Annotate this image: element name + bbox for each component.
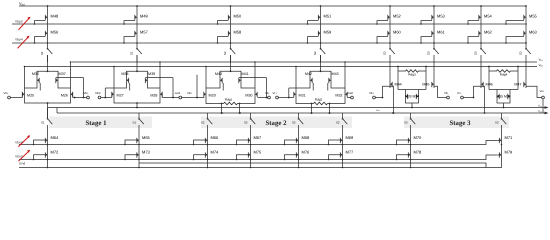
transistor M30 xyxy=(255,90,257,98)
switch S2 (stage strip) xyxy=(244,118,255,125)
wire - Vin- lead xyxy=(11,97,23,99)
wire - pair2 input lead xyxy=(101,97,112,99)
wire - gate lead of M56 to Vbp4 rail xyxy=(35,37,46,43)
transistor M78 xyxy=(408,150,422,159)
wire - column to ground xyxy=(410,159,412,168)
wire - load drains / cross connections xyxy=(206,83,255,91)
svg-text:Rdg3: Rdg3 xyxy=(408,72,416,76)
wire - column between M54 and M62 xyxy=(480,21,482,29)
svg-text:S2: S2 xyxy=(244,121,248,125)
wire - column between M53 and M61 xyxy=(433,21,435,29)
svg-text:M55: M55 xyxy=(529,13,538,18)
svg-text:M63: M63 xyxy=(529,29,538,34)
wire - gate lead of M49 to Vbp0 rail xyxy=(124,21,135,24)
wire - switch lower terminal xyxy=(525,55,527,62)
wire - column to ground xyxy=(138,159,140,168)
wire - column between M66 and M74 xyxy=(207,144,209,151)
transistor M58 xyxy=(228,29,242,37)
wire - source leads of M29/M30 xyxy=(206,98,222,104)
node Vi3 input port xyxy=(276,96,279,99)
resistor Rdg2 xyxy=(312,102,329,105)
wire - gate lead of M48 to Vbp0 rail xyxy=(35,21,46,24)
wire - column between M51 and M59 xyxy=(320,21,322,29)
wire - column between M52 and M60 xyxy=(389,21,391,29)
svg-text:Vbp0: Vbp0 xyxy=(15,20,23,24)
svg-text:M29: M29 xyxy=(209,93,216,97)
stage 2 region bar xyxy=(201,117,352,129)
transistor M56 xyxy=(45,29,59,37)
stage 3 region bar xyxy=(404,117,509,129)
wire - switch lower terminal xyxy=(136,55,138,62)
wire - M47 source to output port xyxy=(526,86,542,97)
transistor M50 xyxy=(228,13,242,21)
wire - gate lead of M58 to Vbp4 rail xyxy=(218,37,229,43)
svg-text:Vbp4: Vbp4 xyxy=(15,38,23,42)
wire - drop into switch S2 xyxy=(342,113,344,118)
transistor M33 xyxy=(406,92,408,100)
wire - column into M45 xyxy=(433,62,435,80)
wire - gate lead of M63 to Vbp4 rail xyxy=(506,37,524,43)
wire - drop into switch S1 xyxy=(138,113,140,118)
wire - source bracket of M42/M43 xyxy=(310,71,331,76)
wire - switch to tail current source xyxy=(138,125,140,136)
svg-text:M65: M65 xyxy=(142,135,151,140)
wire - tail into pair M40/M41 xyxy=(230,55,232,71)
wire - drop into switch S2 xyxy=(298,113,300,118)
svg-text:M67: M67 xyxy=(254,135,263,140)
wire - gate lead of M69 from Vbn4 rail xyxy=(329,140,341,145)
wire - column between M64 and M72 xyxy=(47,144,49,151)
switch S3 (stage strip) xyxy=(404,118,415,125)
transistor M73 xyxy=(137,150,151,159)
wire - source bracket of M36/M37 xyxy=(37,71,58,76)
transistor M49 xyxy=(135,13,149,21)
wire - drain risers of M29/M30 to buses xyxy=(205,67,207,91)
svg-text:Vdd: Vdd xyxy=(19,2,25,7)
transistor M63 xyxy=(524,29,538,37)
svg-text:S3: S3 xyxy=(404,121,408,125)
wire - column between M68 and M76 xyxy=(298,144,300,151)
svg-text:M61: M61 xyxy=(437,29,446,34)
svg-text:S1: S1 xyxy=(40,51,44,55)
transistor M67 xyxy=(248,135,262,144)
svg-text:M31: M31 xyxy=(299,93,306,97)
svg-text:Gnd: Gnd xyxy=(19,162,25,166)
wire - switch to tail current source xyxy=(501,125,503,136)
transistor M62 xyxy=(479,29,493,37)
transistor M72 xyxy=(45,150,59,159)
svg-text:M75: M75 xyxy=(254,150,263,155)
svg-text:S1: S1 xyxy=(130,51,134,55)
svg-text:M68: M68 xyxy=(302,135,311,140)
svg-text:M42: M42 xyxy=(305,72,312,76)
wire - switch lower terminal xyxy=(389,55,391,62)
wire - switch lower terminal xyxy=(230,55,232,62)
wire - column below M62 xyxy=(480,37,482,48)
svg-text:out1: out1 xyxy=(175,91,181,95)
svg-text:M69: M69 xyxy=(346,135,355,140)
svg-text:Rdg2: Rdg2 xyxy=(315,97,323,101)
svg-text:Rdg4: Rdg4 xyxy=(500,72,508,76)
svg-text:S3: S3 xyxy=(495,121,499,125)
wire - M45 source to output port xyxy=(434,86,447,97)
svg-text:Vr+: Vr+ xyxy=(457,91,462,95)
svg-text:S2: S2 xyxy=(223,51,227,55)
switch S1 (stage strip) xyxy=(41,118,52,125)
node Vo2 output port xyxy=(268,96,271,99)
wire - output down to switch bus xyxy=(542,99,544,113)
wire - source bracket of M38/M39 xyxy=(127,71,148,76)
wire - vertical feed into pair3 input xyxy=(196,75,198,98)
transistor M26 xyxy=(71,90,73,98)
transistor M53 xyxy=(432,13,446,21)
svg-text:S2: S2 xyxy=(292,121,296,125)
wire - gate lead of M51 to Vbp0 rail xyxy=(308,21,319,24)
svg-text:M36: M36 xyxy=(32,72,39,76)
switch S2 (top row) xyxy=(223,48,235,55)
svg-text:M38: M38 xyxy=(121,72,128,76)
switch S3 (stage strip) xyxy=(495,118,506,125)
wire - gate stub of M79 xyxy=(497,154,499,156)
wire - column to ground xyxy=(298,159,300,168)
wire - pair1 output lead xyxy=(73,97,87,99)
svg-text:M33 M34: M33 M34 xyxy=(405,94,419,98)
svg-text:M70: M70 xyxy=(414,135,423,140)
switch S3 (top row) xyxy=(519,48,531,55)
transistor M68 xyxy=(296,135,310,144)
switch S3 (top row) xyxy=(427,48,439,55)
wire - column below M56 xyxy=(47,37,49,48)
wire - switch lower terminal xyxy=(47,55,49,62)
wire - gate lead of M65 from Vbn4 rail xyxy=(125,140,137,145)
svg-text:M71: M71 xyxy=(505,135,514,140)
wire - column from Vdd to M53 xyxy=(433,6,435,13)
svg-text:M26: M26 xyxy=(61,93,68,97)
switch S1 (top row) xyxy=(40,48,52,55)
wire - column between M50 and M58 xyxy=(230,21,232,29)
wire - column below M61 xyxy=(433,37,435,48)
wire - load drains / cross connections xyxy=(114,83,160,91)
wire - gate lead of M60 to Vbp4 rail xyxy=(377,37,388,43)
wire - column between M49 and M57 xyxy=(136,21,138,29)
svg-text:M51: M51 xyxy=(324,13,333,18)
wire - gate lead of M68 from Vbn4 rail xyxy=(285,140,297,145)
transistor M32 xyxy=(345,90,347,98)
resistor Rdg3 xyxy=(398,70,404,72)
switch S1 (stage strip) xyxy=(133,118,144,125)
wire - column from Vdd to M48 xyxy=(47,6,49,13)
transistor M41 xyxy=(239,76,241,84)
svg-text:Vo+: Vo+ xyxy=(540,89,545,93)
wire - coupled sources of M25/M26 xyxy=(25,98,71,103)
wire - bus Vb1 xyxy=(72,61,538,63)
svg-text:M37: M37 xyxy=(59,72,66,76)
resistor Rdg4 xyxy=(489,70,495,72)
wire - column from Vdd to M51 xyxy=(320,6,322,13)
wire - Vdd supply rail xyxy=(19,5,526,7)
transistor M76 xyxy=(296,150,310,159)
wire - M39 gate to output node xyxy=(145,77,173,79)
wire - drop into switch S2 xyxy=(207,113,209,118)
transistor M37 xyxy=(56,76,58,84)
wire - Gnd rail xyxy=(19,159,502,168)
wire - gate lead of M61 to Vbp4 rail xyxy=(421,37,432,43)
wire - gate lead of M74 from Vbn0 rail xyxy=(194,155,206,160)
svg-text:M45: M45 xyxy=(422,82,429,86)
wire - column below M58 xyxy=(230,37,232,48)
wire - gate lead of M59 to Vbp4 rail xyxy=(308,37,319,43)
transistor M64 xyxy=(45,135,59,144)
wire - drop into switch S2 xyxy=(250,113,252,118)
wire - switch to tail current source xyxy=(342,125,344,136)
transistor M40 xyxy=(220,76,222,84)
node Vo+ output port xyxy=(542,96,545,99)
transistor M38 xyxy=(127,76,129,84)
wire - column from Vdd to M55 xyxy=(525,6,527,13)
wire - column to ground xyxy=(250,159,252,168)
transistor M69 xyxy=(340,135,354,144)
wire - gate lead of M54 to Vbp0 rail xyxy=(468,21,479,24)
svg-text:Vin-: Vin- xyxy=(4,91,9,95)
svg-text:S3: S3 xyxy=(474,51,478,55)
switch S2 (stage strip) xyxy=(292,118,303,125)
wire - M35/M36 tops to bracket xyxy=(496,90,498,93)
wire - coupled sources of M27/M28 xyxy=(114,98,160,103)
svg-text:M58: M58 xyxy=(234,29,243,34)
wire - gate lead of M67 from Vbn4 rail xyxy=(237,140,249,145)
wire - gate stub of M71 xyxy=(497,140,499,142)
switch S2 (stage strip) xyxy=(201,118,212,125)
wire - gate lead of M75 from Vbn0 rail xyxy=(237,155,249,160)
wire - column to ground xyxy=(342,159,344,168)
svg-text:out2: out2 xyxy=(348,91,354,95)
wire - column between M71 and M79 xyxy=(501,144,503,151)
wire - gate lead of M62 to Vbp4 rail xyxy=(468,37,479,43)
wire - column between M67 and M75 xyxy=(250,144,252,151)
transistor M47 xyxy=(524,80,526,88)
svg-text:M25: M25 xyxy=(27,93,34,97)
svg-text:Vr+: Vr+ xyxy=(273,91,278,95)
wire - gate lead of M50 to Vbp0 rail xyxy=(218,21,229,24)
svg-text:Vb+: Vb+ xyxy=(369,91,374,95)
wire - drain risers of M31/M32 to buses xyxy=(295,67,297,91)
wire - gate lead of M77 from Vbn0 rail xyxy=(329,155,341,160)
wire - column below M63 xyxy=(525,37,527,48)
svg-text:M60: M60 xyxy=(393,29,402,34)
wire - top verticals of M33/M34 cell xyxy=(397,67,399,90)
wire - gate lead of M76 from Vbn0 rail xyxy=(285,155,297,160)
wire - Vbp0 bias rail xyxy=(12,23,527,25)
wire - drain risers of M27/M28 to buses xyxy=(113,67,115,91)
transistor M48 xyxy=(45,13,59,21)
wire - column from Vdd to M50 xyxy=(230,6,232,13)
wire - gate lead of M72 from Vbn0 rail xyxy=(34,155,46,160)
svg-text:M64: M64 xyxy=(51,135,60,140)
wire - M27 drain tap to input node xyxy=(104,88,106,98)
svg-text:M52: M52 xyxy=(393,13,402,18)
wire - M33/M34 tops to bracket xyxy=(405,90,407,93)
wire - M46 source to input port xyxy=(464,86,485,97)
wire - switch lower terminal xyxy=(320,55,322,62)
wire - pair2 output lead xyxy=(162,97,179,99)
transistor M36 xyxy=(508,92,510,100)
svg-text:Vb-: Vb- xyxy=(265,91,269,95)
node Vin- input port xyxy=(8,96,11,99)
switch S3 (top row) xyxy=(383,48,395,55)
transistor M34 xyxy=(416,92,418,100)
svg-text:M73: M73 xyxy=(142,150,151,155)
wire - tail into pair M38/M39 xyxy=(136,55,138,71)
transistor M61 xyxy=(432,29,446,37)
wire - pair3 input lead xyxy=(182,97,205,99)
svg-text:Vin+: Vin+ xyxy=(187,91,193,95)
wire - M44 source to input port xyxy=(376,86,394,97)
svg-text:M57: M57 xyxy=(140,29,149,34)
wire - gate lead of M53 to Vbp0 rail xyxy=(421,21,432,24)
svg-text:Stage 3: Stage 3 xyxy=(450,120,472,127)
svg-text:M47: M47 xyxy=(514,82,521,86)
transistor M55 xyxy=(524,13,538,21)
node Vb+ input port xyxy=(373,96,376,99)
wire - coupled sources of M35/M36 xyxy=(497,100,510,103)
wire - coupled sources of M33/M34 xyxy=(406,100,419,103)
svg-text:S3: S3 xyxy=(383,51,387,55)
svg-text:M72: M72 xyxy=(51,150,60,155)
svg-text:M79: M79 xyxy=(505,150,514,155)
transistor M60 xyxy=(388,29,402,37)
wire - tail down to bus xyxy=(503,103,505,108)
wire - column between M69 and M77 xyxy=(342,144,344,151)
transistor M59 xyxy=(318,29,332,37)
transistor M28 xyxy=(160,90,162,98)
svg-text:M78: M78 xyxy=(414,150,423,155)
transistor M74 xyxy=(205,150,219,159)
wire - gate lead of M52 to Vbp0 rail xyxy=(377,21,388,24)
svg-text:M27: M27 xyxy=(117,93,124,97)
wire - switch lower terminal xyxy=(433,55,435,62)
svg-text:S1: S1 xyxy=(133,121,137,125)
wire - drop into switch S3 xyxy=(501,113,503,118)
svg-text:S2: S2 xyxy=(201,121,205,125)
wire - load drains / cross connections xyxy=(25,83,71,91)
wire - column into M44 xyxy=(389,62,391,80)
wire - switch to tail current source xyxy=(250,125,252,136)
wire - load drains / cross connections xyxy=(296,83,345,91)
wire - gate lead of M57 to Vbp4 rail xyxy=(124,37,135,43)
wire - switch to tail current source xyxy=(410,125,412,136)
wire - column to ground xyxy=(47,159,49,168)
wire - bus B (switch bus) with arrow end xyxy=(57,112,546,114)
wire - bus A (tail bus) with arrow end xyxy=(48,107,546,109)
svg-text:S2: S2 xyxy=(336,121,340,125)
wire - Vbn4 bias rail (steps up to M71 gate) xyxy=(19,141,497,145)
wire - degeneration tail drop xyxy=(239,104,241,114)
switch S1 (top row) xyxy=(130,48,142,55)
wire - degeneration tail drop xyxy=(311,104,313,114)
wire - gate lead of M73 from Vbn0 rail xyxy=(125,155,137,160)
wire - bus Vb2 xyxy=(25,66,538,68)
wire - gate lead of M70 from Vbn4 rail xyxy=(397,140,409,145)
junction dots on switch bus xyxy=(221,112,223,114)
wire - column between M70 and M78 xyxy=(410,144,412,151)
svg-text:M28: M28 xyxy=(150,93,157,97)
wire - column to ground xyxy=(207,159,209,168)
svg-text:M62: M62 xyxy=(484,29,493,34)
switch S2 (stage strip) xyxy=(336,118,347,125)
svg-text:M32: M32 xyxy=(335,93,342,97)
wire - jog joining bus A and bus B xyxy=(56,108,58,114)
wire - column from Vdd to M52 xyxy=(389,6,391,13)
wire - pair3 output lead xyxy=(258,97,268,99)
transistor M79 xyxy=(499,150,513,159)
wire - top bracket of M35/M36 xyxy=(489,89,518,91)
wire - degeneration tail drop xyxy=(221,104,223,114)
transistor M31 xyxy=(294,90,296,98)
wire - column below M60 xyxy=(389,37,391,48)
transistor M51 xyxy=(318,13,332,21)
svg-text:Vo1: Vo1 xyxy=(538,104,542,107)
wire - tail down to bus xyxy=(411,103,413,108)
wire - drop into switch S3 xyxy=(410,113,412,118)
svg-text:M49: M49 xyxy=(140,13,149,18)
svg-text:M46: M46 xyxy=(486,82,493,86)
wire - top verticals of M35/M36 cell xyxy=(488,67,490,90)
transistor M65 xyxy=(137,135,151,144)
transistor M46 xyxy=(481,80,483,88)
transistor M25 xyxy=(22,90,24,98)
svg-text:M30: M30 xyxy=(245,93,252,97)
wire - column between M55 and M63 xyxy=(525,21,527,29)
transistor M66 xyxy=(205,135,219,144)
resistor Rdg1 xyxy=(222,102,239,105)
svg-text:Vb+: Vb+ xyxy=(84,91,89,95)
wire - drop into switch S1 xyxy=(47,108,49,119)
svg-text:M50: M50 xyxy=(234,13,243,18)
wire - source bracket of M40/M41 xyxy=(220,71,241,76)
svg-text:S3: S3 xyxy=(519,51,523,55)
wire - column into M46 xyxy=(480,62,482,80)
wire - tail down to bus xyxy=(136,103,138,108)
transistor M75 xyxy=(248,150,262,159)
svg-text:M56: M56 xyxy=(51,29,60,34)
node Vi2 input port xyxy=(98,96,101,99)
svg-text:M40: M40 xyxy=(215,72,222,76)
transistor M52 xyxy=(388,13,402,21)
transistor M45 xyxy=(432,80,434,88)
svg-text:Stage 2: Stage 2 xyxy=(266,120,288,127)
node out2 output port xyxy=(351,96,354,99)
wire - M44 drain drop to switch bus xyxy=(393,86,395,113)
svg-text:M44: M44 xyxy=(395,82,402,86)
transistor M42 xyxy=(310,76,312,84)
wire - column from Vdd to M54 xyxy=(480,6,482,13)
svg-text:S2: S2 xyxy=(313,51,317,55)
wire - degeneration tail drop xyxy=(329,104,331,114)
wire - M41 gate to output node xyxy=(239,77,267,79)
svg-text:M77: M77 xyxy=(346,150,355,155)
wire - switch to tail current source xyxy=(47,125,49,136)
svg-text:Vo2: Vo2 xyxy=(538,110,542,113)
svg-text:Stage 1: Stage 1 xyxy=(86,120,108,127)
transistor M57 xyxy=(135,29,149,37)
transistor M27 xyxy=(112,90,114,98)
wire - M46 drain drop to switch bus xyxy=(484,86,486,113)
wire - column below M57 xyxy=(136,37,138,48)
wire - tail down to bus xyxy=(47,103,49,118)
transistor M35 xyxy=(497,92,499,100)
svg-text:M41: M41 xyxy=(242,72,249,76)
transistor M39 xyxy=(145,76,147,84)
